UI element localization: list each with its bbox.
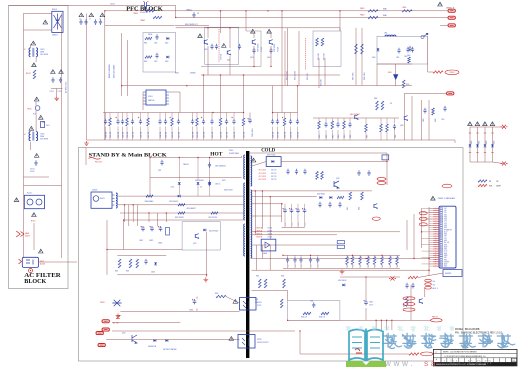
warning triangle: [32, 213, 37, 217]
capacitor CE821: [141, 226, 145, 231]
wire: [169, 91, 180, 93]
svg-text:D831 YG902: D831 YG902: [267, 154, 275, 156]
svg-text:R85: R85: [397, 264, 399, 267]
wire: [24, 185, 62, 187]
wire: [428, 207, 430, 276]
svg-text:C829 471/2KV: C829 471/2KV: [208, 217, 217, 219]
svg-text:R821: R821: [479, 140, 481, 144]
wire: [361, 28, 363, 31]
capacitor C824: [144, 259, 147, 265]
wire: [203, 75, 205, 113]
resistor: [147, 118, 150, 126]
svg-text:R835: R835: [359, 207, 361, 210]
zener diode ZD823: [112, 300, 121, 307]
capacitor CY101: [51, 77, 54, 83]
wire: [35, 110, 37, 115]
svg-text:GND: GND: [444, 214, 447, 216]
wire: [175, 6, 177, 18]
svg-text:C844 104: C844 104: [127, 132, 129, 138]
red label: [425, 279, 432, 282]
wire: [361, 31, 363, 85]
diode D824: [153, 339, 156, 342]
capacitor: [299, 257, 302, 263]
svg-text:GND: GND: [444, 225, 447, 227]
wire: [151, 5, 176, 7]
svg-text:IC801: IC801: [148, 96, 153, 98]
wire: [299, 331, 301, 354]
svg-text:CX101: CX101: [30, 169, 35, 171]
svg-text:R843: R843: [281, 276, 284, 278]
svg-text:C84: C84: [295, 264, 297, 267]
resistor: [126, 118, 129, 126]
wire: [484, 127, 486, 162]
svg-text:23MH: 23MH: [40, 52, 44, 54]
svg-text:13V: 13V: [444, 210, 446, 212]
warning triangle: [267, 29, 272, 33]
svg-text:C843: C843: [310, 301, 313, 303]
wire: [106, 339, 240, 341]
svg-text:D803: D803: [165, 61, 169, 63]
svg-text:hi.com: hi.com: [450, 357, 495, 367]
wire: [418, 273, 443, 278]
svg-text:B13V: B13V: [444, 246, 447, 248]
svg-text:R813 54K: R813 54K: [307, 73, 309, 80]
resistor R810: [361, 44, 364, 54]
wire: [404, 93, 446, 95]
wire rail 6: [252, 244, 338, 246]
title block table: [433, 349, 517, 366]
svg-text:CY: CY: [79, 19, 81, 21]
svg-text:C809 1n: C809 1n: [215, 184, 220, 186]
svg-text:D802: D802: [165, 43, 169, 45]
warning triangle: [468, 122, 473, 126]
wire: [377, 63, 412, 65]
resistor R824: [136, 259, 139, 268]
svg-text:Q802 2SC5707: Q802 2SC5707: [350, 114, 360, 116]
wire: [428, 71, 433, 73]
wire: [365, 277, 367, 300]
svg-text:C801: C801: [154, 43, 158, 45]
resistor: [283, 118, 286, 126]
wire: [196, 297, 198, 300]
svg-text:R868: R868: [374, 98, 377, 100]
wire left rail: [23, 13, 25, 258]
svg-text:R810 560K: R810 560K: [364, 72, 366, 80]
svg-text:Q806: Q806: [400, 125, 404, 127]
svg-text:0.47uF: 0.47uF: [30, 171, 34, 173]
svg-text:SET 12V: SET 12V: [271, 173, 276, 175]
svg-text:T801S: T801S: [229, 150, 233, 152]
wire: [118, 195, 244, 197]
wire right rail: [61, 13, 63, 258]
wire: [220, 11, 222, 33]
photocoupler PC822: [238, 335, 255, 349]
resistor R844: [280, 299, 283, 308]
svg-text:Q803: Q803: [250, 57, 254, 59]
svg-text:OUT 13.2V: OUT 13.2V: [259, 179, 266, 181]
wire: [421, 208, 423, 248]
control box: [288, 301, 340, 321]
diode: [491, 144, 494, 147]
svg-text:C857 104: C857 104: [227, 132, 229, 138]
capacitor: [139, 119, 142, 125]
diode: [476, 144, 479, 147]
resistor R822: [118, 259, 121, 268]
zener diode ZD822: [154, 262, 157, 265]
wire: [150, 177, 242, 179]
capacitor CX201 on AC line: [141, 2, 150, 10]
capacitor C805: [397, 48, 400, 54]
wire: [142, 92, 144, 110]
svg-text:CY: CY: [89, 19, 91, 21]
svg-text:R823: R823: [126, 271, 129, 273]
svg-text:1/1: 1/1: [512, 360, 515, 362]
capacitor C851: [405, 283, 408, 289]
wire rail 3: [252, 203, 284, 205]
svg-text:PC821: PC821: [257, 302, 262, 304]
capacitor CE801: [248, 118, 252, 123]
warning triangle: [43, 20, 48, 24]
resistor R809: [355, 44, 358, 54]
wire: [24, 176, 50, 178]
svg-text:471: 471: [197, 13, 200, 15]
svg-text:L801: L801: [384, 33, 388, 35]
wire: [477, 127, 479, 162]
svg-text:5.3V: 5.3V: [444, 238, 447, 240]
red label: [403, 297, 415, 300]
svg-text:S5v: S5v: [433, 284, 436, 286]
capacitor: [232, 119, 235, 125]
inductor on bus N: [153, 16, 162, 18]
wire from bridge: [24, 29, 52, 31]
capacitor C835: [367, 170, 370, 176]
relay RL101: [24, 195, 44, 208]
wire: [287, 291, 289, 301]
svg-text:5.3V: 5.3V: [444, 223, 447, 225]
capacitor: [116, 119, 119, 125]
diode D823: [203, 229, 206, 232]
capacitor: [316, 257, 319, 263]
resistor R813b: [321, 38, 324, 46]
thermistor RT801: [433, 71, 443, 73]
svg-text:C858 104: C858 104: [234, 132, 236, 138]
svg-text:ZD: ZD: [200, 187, 202, 189]
wire: [256, 245, 258, 270]
capacitor C832: [295, 169, 298, 175]
resistor R832: [321, 171, 324, 179]
svg-text:LF: LF: [24, 49, 26, 51]
svg-text:PC817: PC817: [257, 305, 261, 307]
svg-text:R801: R801: [144, 43, 148, 45]
svg-text:CY101: CY101: [50, 91, 54, 93]
svg-text:C843 104: C843 104: [123, 132, 125, 138]
svg-text:R814 54K: R814 54K: [321, 79, 323, 86]
capacitor C834: [357, 170, 360, 176]
resistor R869: [381, 101, 384, 110]
svg-text:BD801 GBU806: BD801 GBU806: [109, 64, 111, 78]
transistor Q831: [334, 181, 339, 188]
svg-text:D808 UF4007: D808 UF4007: [224, 189, 233, 191]
wire: [261, 191, 263, 229]
warning triangle: [39, 249, 44, 253]
connector plug CN802: [448, 16, 455, 19]
wire: [288, 319, 431, 321]
wire AC line top: [9, 5, 111, 7]
connector plug: [96, 332, 103, 335]
resistor RV101: [33, 70, 36, 79]
svg-text:C859 104: C859 104: [244, 132, 246, 138]
svg-text:CM83: CM83: [292, 222, 294, 226]
common-mode choke LF101: [29, 48, 31, 57]
svg-text:GND: GND: [444, 244, 447, 246]
capacitor CE822: [150, 226, 154, 231]
diode D803: [166, 56, 169, 59]
resistor: [389, 257, 392, 265]
svg-text:MODEL : BN44-00338B: MODEL : BN44-00338B: [455, 329, 480, 331]
transformer secondary winding: [251, 156, 252, 186]
warning triangle: [483, 122, 488, 126]
MOSFET Q802: [227, 50, 230, 55]
wire: [124, 205, 126, 222]
resistor R817: [408, 57, 411, 63]
wire: [137, 205, 139, 226]
capacitor: [336, 122, 339, 128]
svg-text:SET 12V: SET 12V: [271, 170, 276, 172]
svg-text:ON/OFF PROTECT: ON/OFF PROTECT: [257, 342, 269, 344]
inductor L801: [385, 35, 396, 36]
red X mark: [501, 162, 508, 166]
resistor C829: [211, 212, 218, 214]
thermistor label RT801: [445, 70, 459, 75]
capacitor C833: [303, 169, 306, 175]
svg-text:C845 104: C845 104: [133, 132, 135, 138]
svg-text:13V: 13V: [444, 208, 446, 210]
svg-text:C842 104: C842 104: [118, 132, 120, 138]
capacitor: [283, 208, 287, 213]
svg-text:www.: www.: [384, 359, 415, 368]
wire: [365, 308, 367, 320]
svg-text:C808: C808: [404, 56, 408, 58]
svg-text:POWER SW: POWER SW: [444, 229, 452, 231]
wire: [283, 254, 400, 256]
svg-text:C854 104: C854 104: [204, 132, 206, 138]
wire rail 2: [252, 196, 317, 198]
svg-text:C841 104: C841 104: [110, 132, 112, 138]
wire: [281, 161, 387, 163]
varistor symbol: [16, 231, 24, 237]
connector plug: [102, 328, 109, 331]
wire rail 7: [252, 258, 431, 260]
wire: [261, 245, 263, 259]
resistor: [196, 118, 199, 126]
svg-text:TH101: TH101: [27, 109, 32, 111]
svg-text:SET 12V: SET 12V: [271, 179, 276, 181]
capacitor bank right: [406, 47, 409, 53]
capacitor CY201: [79, 19, 82, 25]
svg-text:R85: R85: [353, 264, 355, 267]
wire: [421, 100, 423, 140]
svg-text:FQPF12N60C: FQPF12N60C: [258, 43, 260, 52]
svg-text:R841: R841: [256, 276, 259, 278]
svg-text:RL101: RL101: [27, 193, 32, 195]
resistor: [380, 124, 383, 132]
diode D825: [165, 339, 168, 342]
wire: [281, 204, 283, 222]
warning triangle: [14, 198, 19, 202]
wire rail: [104, 25, 106, 140]
svg-text:PC822: PC822: [257, 339, 262, 341]
connector plug: [98, 344, 105, 347]
wire: [252, 290, 288, 292]
capacitor: [121, 119, 124, 125]
svg-text:R863: R863: [338, 135, 340, 138]
wire: [270, 46, 272, 67]
wire: [300, 353, 409, 355]
svg-text:R809 560K: R809 560K: [353, 72, 355, 80]
svg-text:R820: R820: [471, 140, 473, 144]
capacitor C809: [208, 180, 211, 186]
svg-text:S_5V: S_5V: [444, 251, 447, 253]
wire: [243, 75, 245, 113]
wire: [120, 310, 239, 312]
red label F801: [421, 352, 434, 356]
svg-text:R802: R802: [144, 61, 148, 63]
wire: [411, 96, 413, 140]
transistor Q851: [419, 299, 422, 304]
resistor R842: [264, 279, 267, 288]
svg-text:ZD823: ZD823: [100, 302, 105, 304]
resistor R868: [376, 101, 379, 110]
capacitor: [290, 208, 294, 213]
wire: [117, 254, 166, 256]
wire: [179, 92, 181, 113]
thermistor TH101: [35, 106, 40, 111]
svg-text:P/N : SAMSUNG ELECTRONICS REV: P/N : SAMSUNG ELECTRONICS REV 1.0 1/1: [455, 331, 503, 334]
svg-text:C84: C84: [288, 264, 290, 267]
svg-text:D822: D822: [171, 187, 175, 189]
fuse F101: [41, 122, 45, 128]
warning triangle: [39, 115, 44, 119]
svg-text:5Va: 5Va: [433, 281, 436, 283]
wire: [318, 58, 320, 88]
resistor: [367, 257, 370, 265]
inductor winding: [116, 193, 117, 208]
svg-text:R822: R822: [486, 140, 488, 144]
svg-text:TNR801: TNR801: [186, 10, 192, 12]
warning triangle: [438, 2, 443, 6]
svg-text:R846 4.7K: R846 4.7K: [319, 317, 325, 319]
warning triangle: [31, 41, 36, 45]
wire: [165, 213, 167, 222]
svg-text:C851 104: C851 104: [179, 132, 181, 138]
resistor R823: [129, 259, 132, 268]
svg-text:C846 104: C846 104: [141, 132, 143, 138]
wire drop: [386, 320, 388, 330]
resistor R813a: [316, 38, 319, 46]
wire bus: [176, 27, 340, 29]
warning triangle: [475, 122, 480, 126]
transformer primary winding: [244, 155, 245, 179]
wire: [355, 28, 357, 31]
svg-text:SNUB: SNUB: [148, 34, 152, 36]
svg-text:C863 104: C863 104: [291, 132, 293, 138]
svg-text:OUT 13.2V: OUT 13.2V: [259, 170, 266, 172]
resistor: [219, 118, 222, 126]
transformer T801 core bar: [246, 151, 249, 358]
svg-text:D804: D804: [372, 57, 376, 59]
wire: [269, 245, 271, 270]
svg-text:C852 104: C852 104: [193, 132, 195, 138]
watermark book base: [346, 361, 386, 367]
svg-text:R808: R808: [175, 73, 179, 75]
wire: [149, 158, 151, 196]
capacitor C804: [238, 44, 241, 50]
wire: [469, 127, 471, 162]
inductor on bus L: [146, 10, 155, 12]
diode D804: [377, 48, 380, 51]
svg-text:C853 104: C853 104: [197, 132, 199, 138]
svg-text:R825: R825: [215, 293, 219, 295]
svg-text:LF: LF: [24, 134, 26, 136]
wire: [284, 31, 286, 85]
standby block frame: [79, 148, 464, 362]
wire: [106, 220, 108, 275]
wire bus: [103, 112, 244, 114]
wire rail 4: [252, 215, 282, 217]
resistor: [351, 257, 354, 265]
wire: [273, 112, 298, 114]
wire rail 1: [252, 190, 373, 192]
red label CN: [419, 212, 427, 215]
warning triangle: [251, 29, 256, 33]
resistor R833: [337, 196, 344, 198]
wire: [440, 24, 448, 26]
svg-text:GND: GND: [444, 249, 447, 251]
warning triangle: [100, 13, 105, 17]
svg-text:BLOCK: BLOCK: [24, 279, 47, 285]
capacitor C831: [286, 169, 289, 175]
resistor: [318, 121, 321, 129]
junction dots: [104, 10, 105, 11]
wire AC out: [39, 261, 78, 263]
svg-text:R85: R85: [360, 264, 362, 267]
watermark large blue text: [383, 333, 401, 348]
svg-text:CY102: CY102: [58, 91, 62, 93]
PFC controller IC801: [146, 90, 166, 105]
wire: [297, 86, 299, 113]
wire: [282, 227, 305, 229]
wire PFC ground bus: [87, 139, 456, 141]
wire: [427, 36, 429, 72]
MOSFET Q803: [252, 40, 255, 45]
standby controller IC802: [91, 192, 112, 208]
wire: [493, 162, 504, 164]
svg-text:23MH: 23MH: [40, 136, 44, 138]
svg-text:GND: GND: [444, 266, 447, 268]
svg-text:R865: R865: [350, 135, 352, 138]
svg-text:R85: R85: [375, 264, 377, 267]
svg-text:C855 104: C855 104: [212, 132, 214, 138]
capacitor CE823: [159, 226, 163, 231]
svg-text:BD101: BD101: [52, 9, 57, 11]
wire: [253, 34, 255, 39]
red label: [377, 182, 386, 185]
wire: [270, 34, 272, 39]
warning triangle: [233, 300, 238, 304]
capacitor C852: [411, 283, 414, 289]
svg-text:Q822: Q822: [122, 333, 126, 335]
transistor Q832: [374, 204, 377, 209]
